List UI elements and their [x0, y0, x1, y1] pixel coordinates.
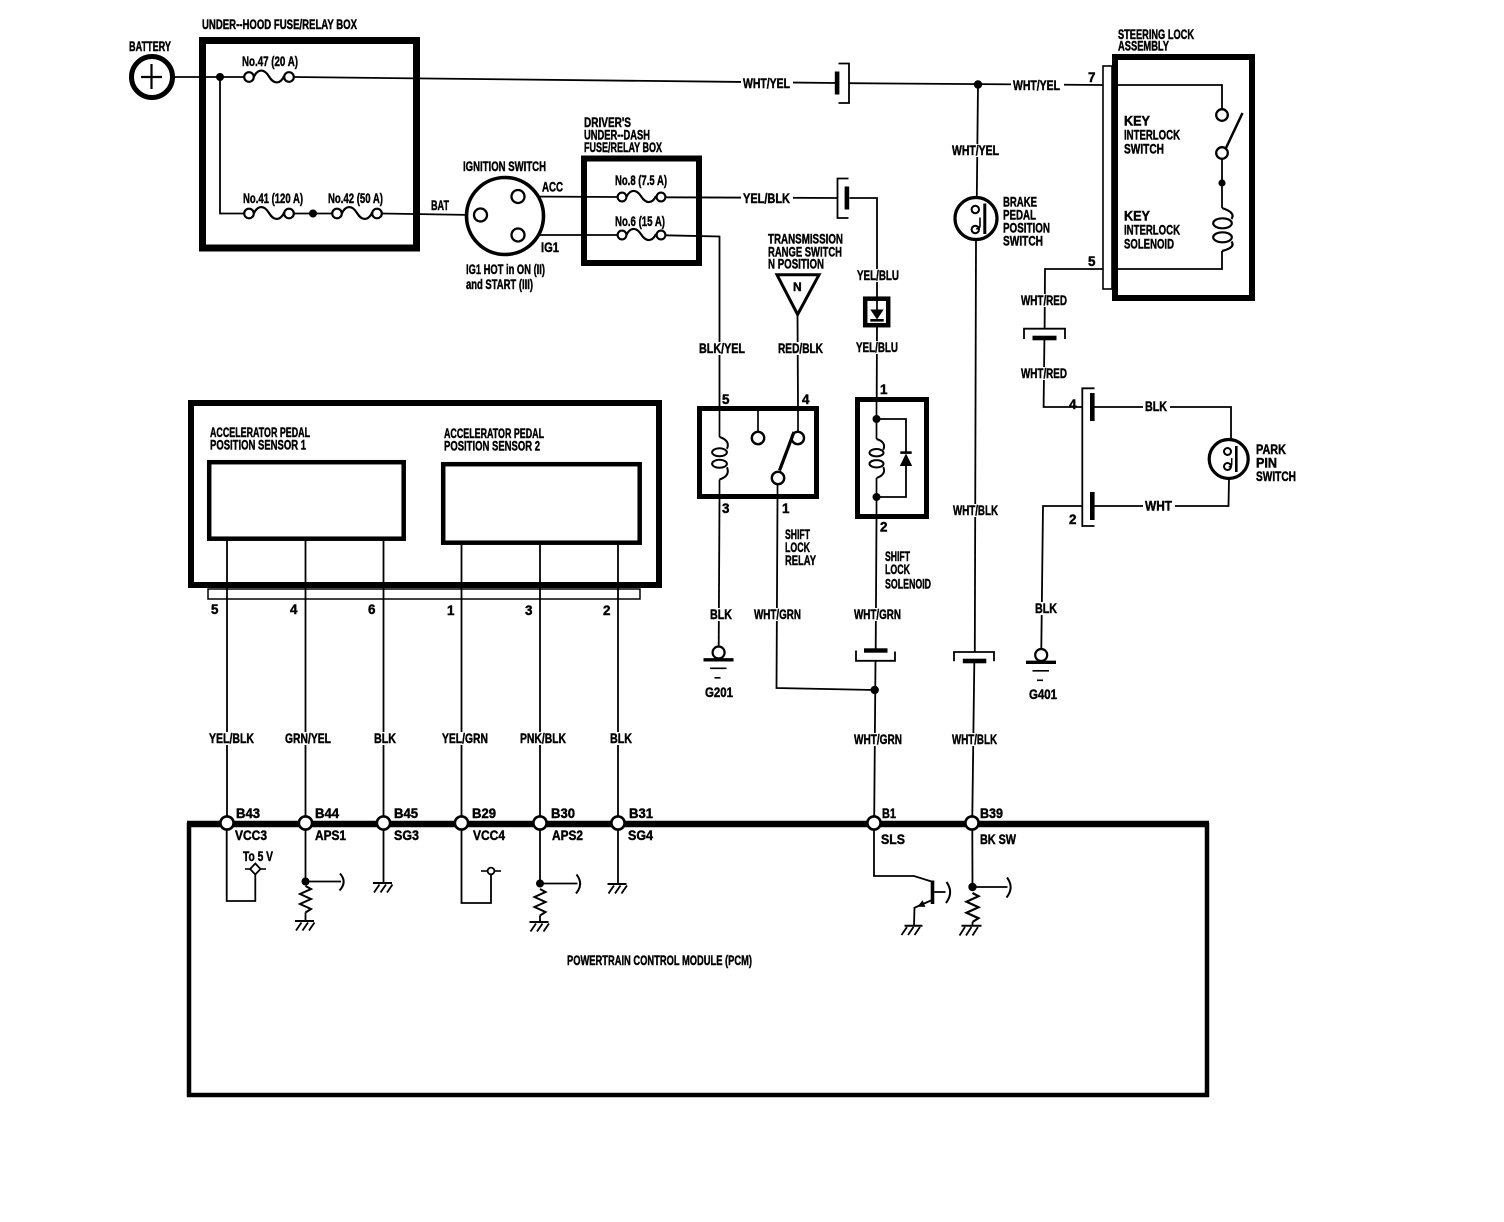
svg-text:YEL/BLU: YEL/BLU [856, 340, 898, 355]
svg-text:4: 4 [290, 602, 298, 617]
wire fuse42 to ignition switch BAT [382, 214, 474, 216]
PCM interior B43 to 5V reference [227, 830, 266, 902]
svg-text:B44: B44 [315, 806, 340, 821]
svg-text:B45: B45 [394, 806, 419, 821]
label wire BLK park [1143, 399, 1170, 414]
svg-text:SG4: SG4 [628, 828, 654, 843]
label wire BLK G201 [708, 607, 735, 622]
wire APP sensor1 pin wires to PCM [226, 541, 228, 817]
svg-text:WHT/RED: WHT/RED [1021, 293, 1067, 308]
wire fuse47 to WHT/YEL connector [294, 77, 835, 83]
svg-text:RELAY: RELAY [785, 553, 816, 568]
wire steering lock interior switch to coil [1221, 159, 1223, 209]
label wire GRN/YEL column [283, 731, 333, 746]
PCM interior B30 pull-down resistor + internal node [530, 830, 581, 932]
svg-text:WHT/GRN: WHT/GRN [854, 732, 902, 747]
label wire YEL/GRN column [440, 731, 490, 746]
svg-text:G401: G401 [1029, 687, 1057, 702]
ground G401 [1026, 649, 1056, 680]
svg-text:POSITION SENSOR 2: POSITION SENSOR 2 [444, 439, 540, 454]
wire steering lock coil to pin 5 [1112, 251, 1222, 269]
label wire BLK column 2 [608, 731, 635, 746]
PCM pin B31 [611, 816, 624, 829]
svg-text:SWITCH: SWITCH [1124, 142, 1164, 157]
svg-text:VCC3: VCC3 [235, 828, 267, 843]
PCM pin B39 [965, 816, 978, 829]
label wire WHT [1143, 499, 1175, 514]
label wire WHT/YEL left [741, 76, 793, 91]
wire diode box to solenoid pin1 (YEL/BLU) [876, 323, 878, 399]
svg-text:YEL/BLK: YEL/BLK [743, 191, 790, 206]
label wire WHT/YEL vertical [950, 143, 1002, 158]
accelerator pedal position sensor 2 inner box [443, 464, 640, 543]
wire WHT/RED connector down and right to connector pin 4 [1044, 340, 1082, 407]
PCM pin B30 [533, 816, 546, 829]
wire pin5 to WHT/RED connector [1045, 269, 1103, 329]
driver's under-dash fuse/relay box [584, 159, 699, 264]
svg-text:IG1: IG1 [541, 240, 559, 255]
svg-text:3: 3 [525, 603, 532, 618]
wire inside steering lock from pin7 [1112, 85, 1222, 110]
svg-text:1: 1 [447, 603, 455, 618]
fuse No.41 (120 A) [244, 207, 294, 219]
svg-text:BAT: BAT [431, 198, 450, 213]
svg-text:INTERLOCK: INTERLOCK [1124, 223, 1180, 238]
svg-text:VCC4: VCC4 [473, 828, 505, 843]
svg-text:2: 2 [880, 520, 887, 535]
svg-text:LOCK: LOCK [885, 562, 910, 577]
svg-text:and START (III): and START (III) [466, 277, 533, 292]
under-hood fuse/relay box [203, 41, 417, 249]
svg-text:1: 1 [880, 382, 888, 397]
ground G201 [704, 647, 734, 678]
connector pin 2 terminal bar [1090, 492, 1095, 520]
label wire BLK column 1 [372, 731, 399, 746]
label wire BLK/YEL [697, 341, 748, 356]
svg-text:B31: B31 [629, 806, 654, 821]
svg-text:6: 6 [368, 602, 375, 617]
accelerator pedal module outer box [191, 403, 659, 585]
PCM interior B29 internal reference [462, 830, 502, 904]
svg-text:WHT/YEL: WHT/YEL [1013, 78, 1060, 93]
svg-text:BLK/YEL: BLK/YEL [699, 341, 745, 356]
svg-text:4: 4 [802, 392, 810, 407]
connector pin 4 terminal bar [1090, 393, 1095, 421]
svg-text:POWERTRAIN CONTROL MODULE (PCM: POWERTRAIN CONTROL MODULE (PCM) [567, 953, 752, 968]
svg-text:No.47 (20 A): No.47 (20 A) [242, 54, 298, 69]
svg-text:KEY: KEY [1124, 114, 1150, 129]
accelerator pedal position sensor 1 inner box [209, 462, 404, 539]
svg-text:BK SW: BK SW [980, 832, 1016, 847]
svg-text:N POSITION: N POSITION [768, 257, 824, 272]
svg-text:7: 7 [1088, 70, 1095, 85]
svg-text:5: 5 [722, 392, 730, 407]
junction dot WHT/YEL to brake switch [974, 80, 982, 88]
svg-text:ACC: ACC [542, 180, 563, 195]
svg-text:YEL/GRN: YEL/GRN [442, 731, 488, 746]
inline connector on WHT/YEL wire [835, 64, 849, 104]
junction dot between fuses [309, 210, 317, 218]
PCM interior B39 pull-down resistor + internal node [960, 830, 1011, 936]
wire park pin switch to pin 2 (WHT) [1095, 479, 1230, 507]
svg-text:WHT/GRN: WHT/GRN [854, 607, 901, 622]
svg-text:5: 5 [211, 602, 219, 617]
label wire YEL/BLK [741, 191, 793, 206]
label wire YEL/BLU upper [855, 268, 903, 283]
PCM pin B45 [377, 816, 390, 829]
svg-text:ASSEMBLY: ASSEMBLY [1118, 39, 1169, 54]
PCM pin B43 [220, 816, 233, 829]
svg-text:SWITCH: SWITCH [1003, 234, 1043, 249]
fuse No.42 (50 A) [332, 207, 382, 219]
shift lock relay box [700, 409, 817, 497]
junction dot battery branch [216, 73, 224, 81]
svg-text:BLK: BLK [1035, 601, 1057, 616]
svg-text:POSITION SENSOR 1: POSITION SENSOR 1 [210, 438, 306, 453]
svg-text:B29: B29 [472, 806, 496, 821]
svg-text:To 5 V: To 5 V [243, 849, 273, 864]
svg-text:B30: B30 [551, 806, 575, 821]
svg-text:SLS: SLS [881, 832, 905, 847]
shift lock solenoid interior [870, 399, 913, 519]
svg-text:SOLENOID: SOLENOID [1124, 237, 1174, 252]
label wire BLK G401 [1033, 601, 1060, 616]
transmission range switch N position triangle [777, 275, 819, 315]
wire YEL/BLK connector down to shift lock solenoid pin 1 [850, 198, 878, 301]
svg-text:5: 5 [1088, 254, 1096, 269]
PCM interior B31 ground [608, 830, 628, 894]
svg-text:WHT/BLK: WHT/BLK [953, 503, 998, 518]
svg-text:2: 2 [603, 603, 610, 618]
wire fuse No.8 to YEL/BLK connector [666, 196, 838, 199]
svg-text:1: 1 [782, 501, 790, 516]
svg-text:WHT/BLK: WHT/BLK [952, 732, 997, 747]
svg-text:WHT/YEL: WHT/YEL [743, 76, 790, 91]
svg-text:WHT/YEL: WHT/YEL [952, 143, 999, 158]
PCM interior B44 pull-down resistor + internal node [295, 830, 344, 931]
label wire WHT/RED lower [1019, 366, 1070, 381]
fuse No.6 (15 A) [618, 229, 666, 240]
battery [132, 57, 173, 98]
svg-text:KEY: KEY [1124, 209, 1150, 224]
PCM interior transistor Q (SLS driver) [874, 830, 950, 936]
inline connector on WHT/GRN wire [856, 648, 895, 661]
label wire WHT/BLK upper [951, 503, 1001, 518]
ignition switch [467, 178, 544, 255]
svg-text:B1: B1 [882, 806, 896, 821]
label wire WHT/RED upper [1019, 293, 1070, 308]
svg-text:YEL/BLU: YEL/BLU [857, 268, 899, 283]
svg-text:2: 2 [1069, 512, 1076, 527]
svg-text:BLK: BLK [1145, 399, 1167, 414]
label wire YEL/BLK column [207, 731, 257, 746]
diode inside diode unit box [870, 301, 883, 320]
svg-text:SG3: SG3 [394, 828, 419, 843]
powertrain control module (PCM) box [189, 825, 1207, 1095]
wire TRS triangle to relay pin 4 (RED/BLK) [797, 315, 800, 406]
svg-text:SOLENOID: SOLENOID [885, 577, 931, 592]
diode unit box on YEL/BLU wire [865, 299, 888, 326]
shift lock solenoid box [858, 400, 927, 517]
steering lock assembly box [1115, 57, 1252, 298]
svg-text:RED/BLK: RED/BLK [778, 341, 823, 356]
wire battery branch down to fuse41 [220, 77, 244, 214]
wire connector to PCM pin B39 [972, 663, 974, 817]
svg-text:No.6 (15 A): No.6 (15 A) [615, 214, 665, 229]
label wire WHT/GRN column [852, 732, 904, 747]
label wire WHT/GRN solenoid [852, 607, 903, 622]
svg-text:3: 3 [722, 501, 729, 516]
svg-text:APS1: APS1 [315, 828, 346, 843]
label wire WHT/BLK column [950, 732, 1000, 747]
svg-text:PNK/BLK: PNK/BLK [520, 731, 566, 746]
wire ACC to fuse No.8 [525, 196, 618, 199]
svg-text:YEL/BLK: YEL/BLK [209, 731, 254, 746]
svg-text:IG1 HOT in ON (II): IG1 HOT in ON (II) [466, 262, 545, 277]
svg-text:BLK: BLK [374, 731, 396, 746]
label wire PNK/BLK column [518, 731, 568, 746]
steering lock interior: key interlock switch [1216, 109, 1242, 159]
wire relay pin 1 down (WHT/GRN) [777, 499, 875, 690]
inline connector on YEL/BLK wire [838, 179, 850, 219]
svg-text:No.8 (7.5 A): No.8 (7.5 A) [615, 173, 667, 188]
park pin switch [1209, 440, 1248, 479]
inline connector on WHT/RED wire [1024, 329, 1065, 341]
label wire YEL/BLU lower [854, 340, 902, 355]
svg-text:GRN/YEL: GRN/YEL [285, 731, 331, 746]
wire relay pin 3 to ground G201 [718, 499, 721, 647]
wire fuse No.6 to shift lock relay pin 5 (BLK/YEL) [666, 235, 720, 406]
PCM interior B45 ground [373, 830, 393, 893]
svg-text:4: 4 [1069, 397, 1077, 412]
accelerator pedal connector strip [208, 589, 640, 599]
wire IG1 to fuse No.6 [525, 234, 618, 236]
wire pin 2 to ground G401 (BLK) [1041, 506, 1082, 649]
PCM pin B44 [299, 816, 312, 829]
svg-text:WHT/GRN: WHT/GRN [754, 607, 801, 622]
wire APP sensor2 pin wires to PCM [461, 545, 463, 817]
wire brake switch to connector (WHT/BLK) [975, 240, 976, 653]
junction dot WHT/GRN relay/solenoid [871, 686, 879, 694]
svg-text:INTERLOCK: INTERLOCK [1124, 128, 1180, 143]
svg-text:UNDER--HOOD FUSE/RELAY BOX: UNDER--HOOD FUSE/RELAY BOX [202, 17, 357, 32]
wire connector to junction to steering lock pin 7 [850, 83, 1104, 85]
PCM pin B29 [455, 816, 468, 829]
svg-text:APS2: APS2 [552, 828, 583, 843]
wire between fuse41 and fuse42 [294, 213, 332, 215]
svg-text:N: N [793, 280, 802, 294]
wire battery to underhood bus [172, 76, 244, 78]
svg-text:WHT/RED: WHT/RED [1021, 366, 1067, 381]
label wire WHT/YEL right [1011, 78, 1064, 93]
steering lock connector strip [1103, 66, 1112, 289]
inline connector on WHT/BLK wire [954, 652, 994, 663]
fuse No.47 (20 A) [244, 71, 294, 83]
fuse No.8 (7.5 A) [618, 191, 666, 202]
2-pin connector bracket (park pin switch) [1082, 388, 1094, 526]
svg-text:B39: B39 [980, 806, 1003, 821]
svg-text:BLK: BLK [610, 731, 632, 746]
svg-text:No.41 (120 A): No.41 (120 A) [243, 191, 303, 206]
wire pin 4 to park pin switch (BLK) [1095, 407, 1232, 440]
svg-text:FUSE/RELAY BOX: FUSE/RELAY BOX [584, 140, 662, 155]
svg-text:G201: G201 [705, 685, 733, 700]
wire solenoid pin 2 down (WHT/GRN) [875, 519, 878, 649]
svg-text:IGNITION SWITCH: IGNITION SWITCH [463, 159, 546, 174]
wire brake switch branch down from junction [977, 85, 978, 198]
wire WHT/GRN connector to PCM pin B1 [874, 661, 875, 817]
svg-text:BATTERY: BATTERY [129, 39, 171, 54]
label wire WHT/GRN relay [752, 607, 803, 622]
svg-text:BLK: BLK [710, 607, 732, 622]
steering lock interior: key interlock solenoid coil [1213, 208, 1232, 251]
svg-text:SWITCH: SWITCH [1256, 469, 1296, 484]
brake pedal position switch [955, 198, 997, 240]
svg-text:WHT: WHT [1145, 499, 1173, 514]
shift lock relay interior [712, 406, 804, 499]
label wire RED/BLK [776, 341, 826, 356]
svg-text:B43: B43 [236, 806, 260, 821]
PCM pin B1 [867, 816, 880, 829]
svg-text:No.42 (50 A): No.42 (50 A) [328, 191, 383, 206]
junction dot steering lock interior [1218, 179, 1225, 186]
